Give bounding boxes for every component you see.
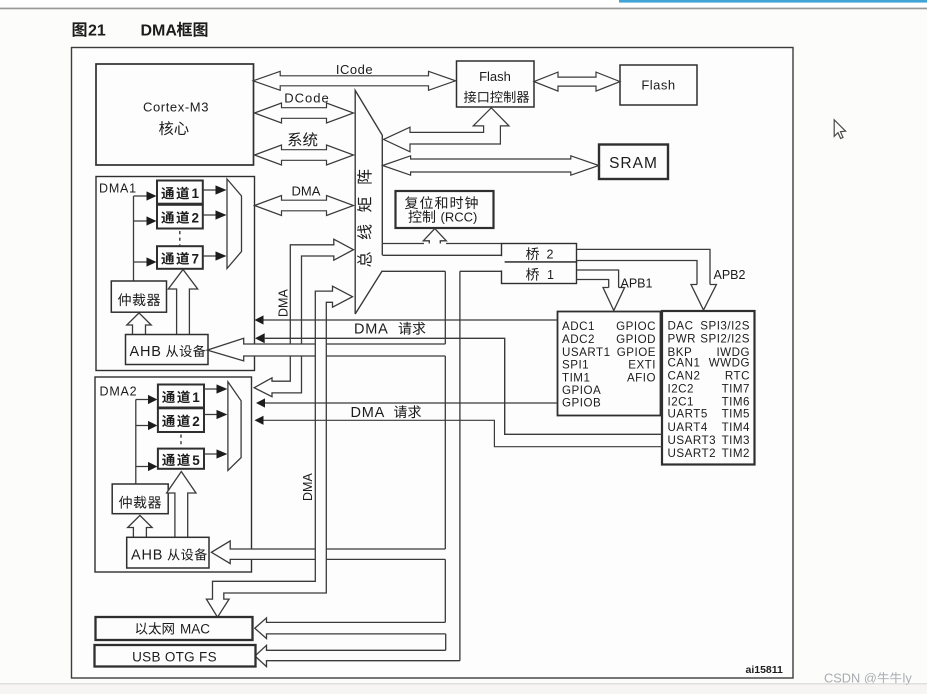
dashed ellipsis channels 3-6 [179,231,181,246]
svg-text:DMA: DMA [277,289,291,317]
block DMA2 channel 5 [158,449,204,469]
block APB1 peripherals [558,312,661,416]
svg-text:ADC1: ADC1 [562,320,595,333]
arrow AHB bus to Ethernet MAC [255,618,446,639]
bus DMA1 master DMA [255,196,354,216]
svg-text:21: 21 [88,22,106,39]
svg-text:RTC: RTC [725,370,750,383]
bus matrix to Flash interface (L-shaped) [384,108,510,152]
svg-text:DMA: DMA [301,473,315,501]
svg-text:GPIOB: GPIOB [562,397,601,410]
svg-text:DMA: DMA [292,184,321,199]
block USB OTG FS [95,645,256,667]
arrowhead APB2 [691,285,716,311]
DMA1 channel mux funnel [227,179,242,269]
arrow AHB bus to DMA2 AHB slave [211,541,445,564]
block DMA2 AHB slave AHB从设备 [127,537,209,568]
wires channels to funnel DMA2 [204,389,217,454]
svg-text:SPI2/I2S: SPI2/I2S [700,333,750,346]
arrow to RCC [423,229,446,244]
svg-text:DMA: DMA [354,322,389,338]
bus matrix 总线矩阵 [355,90,382,314]
block Flash interface controller [457,61,535,107]
mouse cursor [834,120,845,139]
svg-text:DMA2: DMA2 [100,385,138,399]
svg-text:MAC: MAC [180,622,210,637]
svg-text:UART4: UART4 [668,421,708,434]
wires arbiter to channels DMA1 [134,196,148,262]
block DMA2 channel 2 [158,408,204,432]
svg-text:DMA: DMA [351,405,386,421]
svg-text:TIM7: TIM7 [722,383,750,396]
block DMA2 channel 1 [158,385,204,408]
svg-text:GPIOA: GPIOA [562,384,601,397]
svg-text:SPI3/I2S: SPI3/I2S [700,320,750,333]
svg-text:ai15811: ai15811 [746,664,784,676]
svg-text:TIM5: TIM5 [722,408,750,421]
wire AHB to bridge1 [382,270,502,272]
decorative top blue bar [619,0,927,3]
svg-text:1: 1 [192,390,200,405]
svg-text:1: 1 [547,268,554,282]
svg-text:AFIO: AFIO [627,372,656,385]
svg-text:TIM2: TIM2 [722,447,750,460]
wire DMA request line to DMA2 (APB1) [265,402,557,404]
wire DMA1 arbiter trunk [133,196,135,281]
wire bridge1 to APB1 arrow [577,270,619,288]
block DMA1 arbiter 仲裁器 [111,281,166,312]
block DMA1 controller [96,177,255,371]
svg-text:USB OTG FS: USB OTG FS [132,650,217,665]
svg-text:AHB: AHB [131,548,163,564]
block Flash memory [620,65,697,105]
svg-text:EXTI: EXTI [628,359,656,372]
svg-text:5: 5 [192,453,200,468]
bus ICode [253,71,455,90]
block DMA1 channel 2 [157,205,203,229]
svg-text:ICode: ICode [336,62,373,77]
dashed ellipsis channels 3-4 [180,435,182,449]
svg-text:7: 7 [192,252,200,267]
wires channels to funnel DMA1 [203,190,216,256]
block RCC 复位和时钟控制 [396,191,494,228]
svg-text:PWR: PWR [668,333,697,346]
bus AHB to bridge2 (double line) [383,244,502,256]
label DMA rotated (Ethernet bus) [301,473,315,501]
svg-text:AHB: AHB [130,344,162,360]
svg-text:TIM1: TIM1 [562,372,590,385]
svg-text:USART1: USART1 [562,346,611,359]
wires arbiter to channels DMA2 [136,400,149,467]
block bridge2 桥2 [502,244,577,263]
svg-text:APB2: APB2 [714,268,746,282]
wire DMA request line to DMA1 (APB2) [265,338,663,434]
wire bridge2 to APB2 arrow [577,249,711,284]
svg-text:GPIOE: GPIOE [617,346,656,359]
svg-text:CAN2: CAN2 [668,370,701,383]
arrow AHB slave to arbiter DMA1 [127,313,151,335]
block Cortex-M3 core [96,64,254,165]
DMA2 channel mux funnel [228,382,241,471]
block bridge1 桥1 [502,262,577,284]
arrow AHB bus to DMA2 AHB slave: white mask [211,541,445,564]
svg-text:DAC: DAC [668,320,694,333]
svg-text:(RCC): (RCC) [441,210,478,225]
wire DMA request line to DMA2 (APB2) [264,420,664,446]
svg-text:USART3: USART3 [668,434,717,447]
svg-text:2: 2 [192,211,200,226]
arrowhead APB1 [603,288,625,311]
block SRAM [599,145,668,180]
svg-text:TIM3: TIM3 [722,434,750,447]
arrow AHB slave to channel7 DMA1 [168,270,197,335]
wire DMA2 arbiter trunk [135,400,137,485]
vertical AHB config bus (channel B) [445,271,460,660]
svg-text:SRAM: SRAM [609,155,658,172]
svg-text:GPIOC: GPIOC [616,320,656,333]
arrow AHB slave to arbiter DMA2 [128,515,152,537]
svg-text:DCode: DCode [284,91,329,106]
title 图21 DMA框图 [73,22,87,36]
svg-text:TIM4: TIM4 [722,421,750,434]
svg-text:CAN1: CAN1 [668,357,701,370]
arrow AHB bus to DMA1 AHB slave: white mask [207,338,445,361]
block APB2 peripherals [662,311,755,465]
block DMA1 channel 1 [157,181,203,204]
wire DMA request line to DMA1 (APB1) [264,319,557,321]
block DMA1 channel 7 [157,246,203,269]
svg-text:Flash: Flash [641,78,675,93]
bus matrix to SRAM [383,156,599,175]
svg-text:SPI1: SPI1 [562,359,589,372]
svg-text:2: 2 [192,414,200,429]
svg-text:USART2: USART2 [668,447,717,460]
bus DMA2 master to matrix (Z channel) [254,239,353,397]
svg-text:Cortex-M3: Cortex-M3 [143,100,209,115]
svg-text:GPIOD: GPIOD [616,333,656,346]
svg-text:Flash: Flash [479,69,511,84]
bus DCode [255,103,354,123]
arrow AHB bus to USB OTG FS [255,645,460,666]
block Ethernet MAC 以太网MAC [96,617,253,640]
block DMA2 arbiter 仲裁器 [112,484,168,514]
arrow AHB slave to channel5 DMA2 [167,472,196,538]
svg-text:APB1: APB1 [621,277,653,291]
label DMA rotated (DMA2 bus) [277,289,291,317]
svg-text:DMA: DMA [141,22,178,39]
bus Flash IF to Flash [534,72,620,91]
block DMA2 controller [95,377,252,572]
svg-text:2: 2 [547,248,554,262]
svg-text:1: 1 [192,186,200,201]
svg-text:DMA1: DMA1 [99,182,137,196]
bus 系统 system [255,145,354,165]
svg-text:WWDG: WWDG [709,357,750,370]
svg-text:UART5: UART5 [668,408,708,421]
arrow AHB bus to DMA1 AHB slave [207,338,445,361]
svg-text:I2C2: I2C2 [668,383,695,396]
block DMA1 AHB slave AHB从设备 [126,335,209,365]
white notch where AHB tube meets bridges [501,256,505,270]
bus Ethernet DMA to matrix (Z channel 2) [206,286,352,617]
svg-text:ADC2: ADC2 [562,333,595,346]
